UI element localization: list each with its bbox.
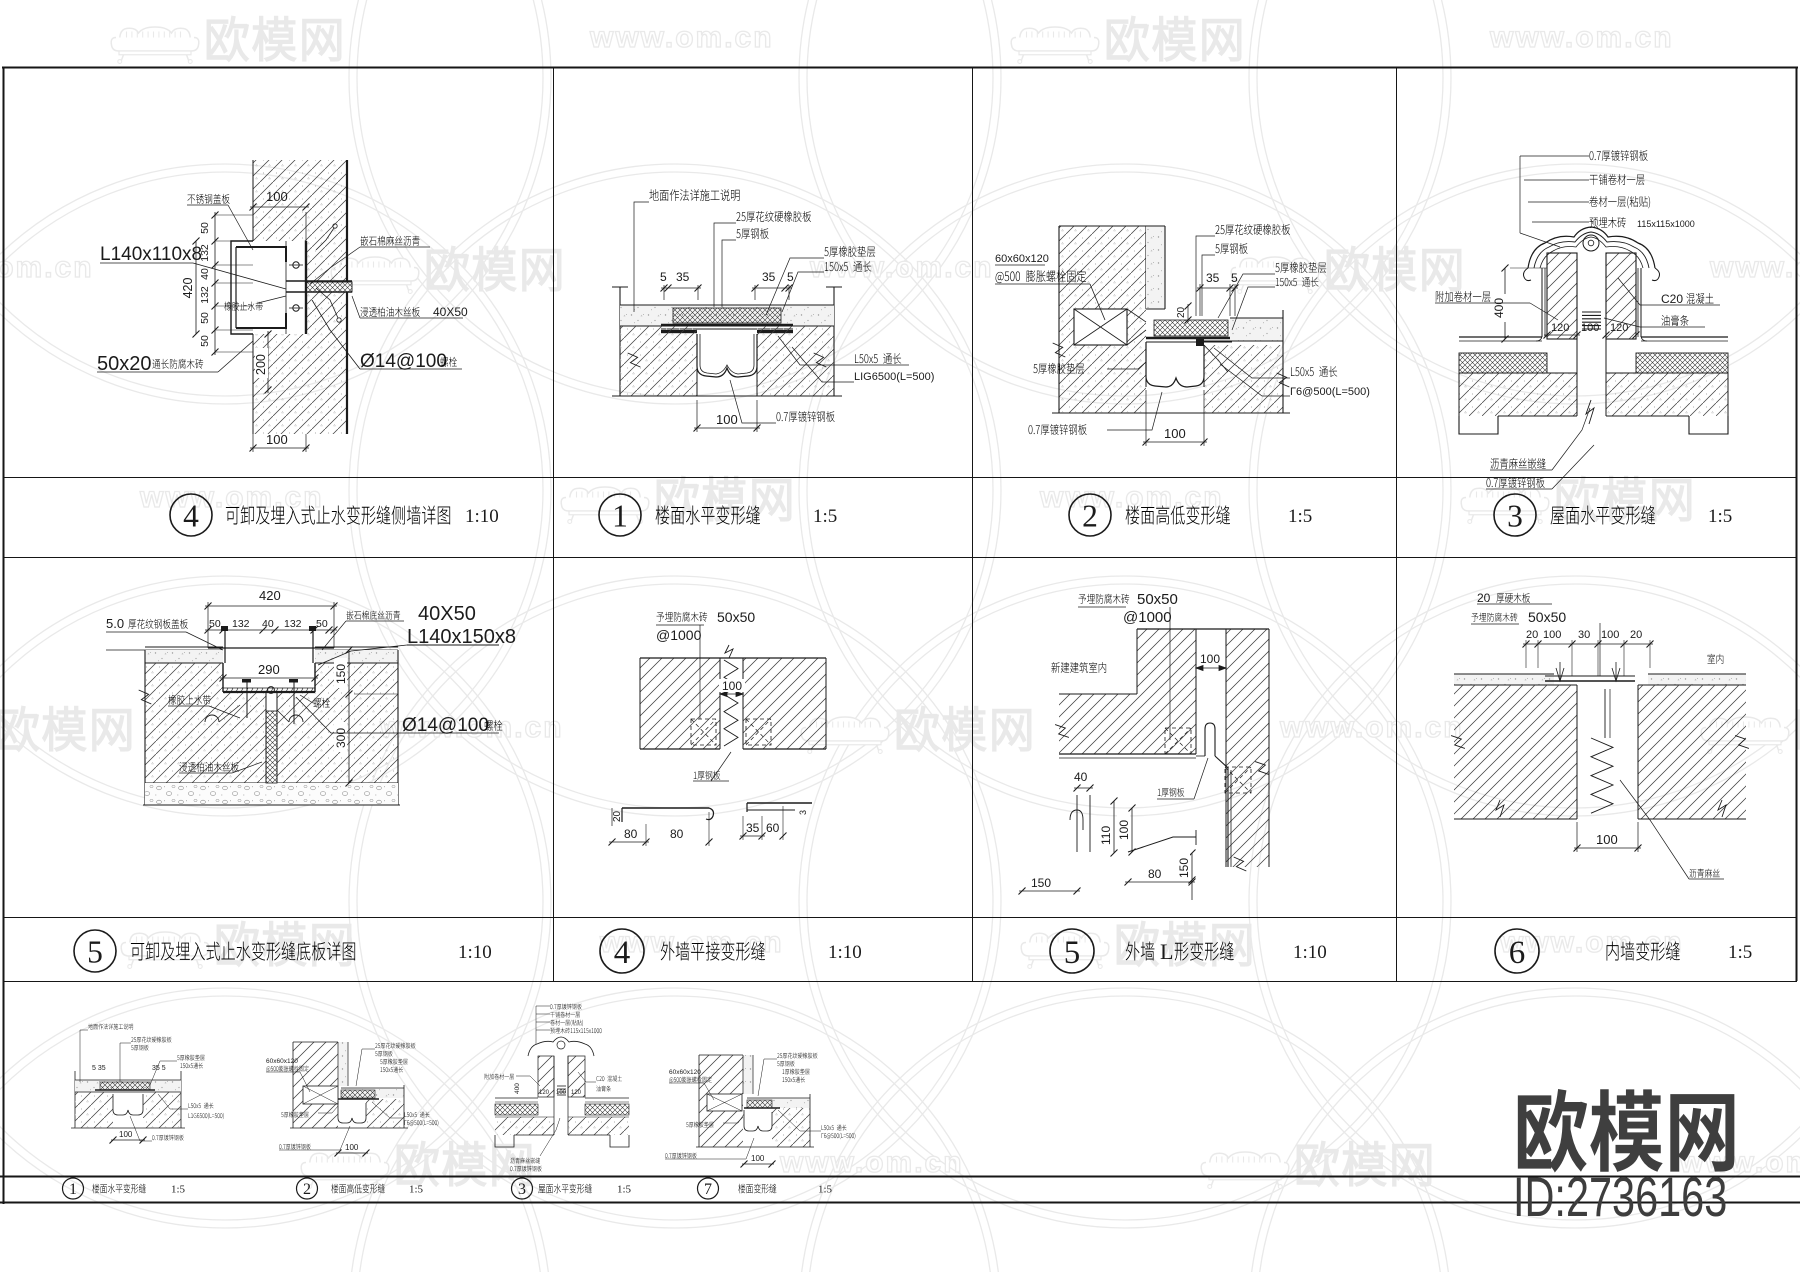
p6 slab hatch left [1454,685,1577,819]
svg-text:50x50: 50x50 [717,609,755,625]
watermark circle pair at 675,78 [357,0,993,396]
svg-text:132: 132 [232,618,250,630]
panel 4 label wood fiber board 40X50 [360,307,420,317]
m4 sealant zigzag [724,660,738,746]
panel 2 slab bottom [1052,412,1290,414]
svg-text:5: 5 [87,934,103,969]
panel 3 label sealant strip [1661,315,1688,326]
panel 4 wall hatch right wythe upper [306,241,347,281]
panel 3 top labels [1589,150,1647,161]
svg-text:420: 420 [259,588,281,603]
svg-text:C20: C20 [1661,292,1683,306]
svg-text:132: 132 [284,618,302,630]
svg-text:100: 100 [1117,820,1131,840]
watermark circle pair at 225,490 [0,172,543,808]
svg-text:www.om.cn: www.om.cn [779,1146,964,1179]
svg-text:120: 120 [539,1090,550,1096]
panel 2 rubber plate assembly [1154,320,1228,336]
svg-text:7: 7 [704,1181,712,1198]
m5b outer wall hatch [1226,629,1269,867]
svg-text:35: 35 [746,821,760,835]
p6 slab hatch right [1638,685,1746,819]
m5b dim 80 [1125,881,1195,883]
svg-text:50x50: 50x50 [1528,609,1566,625]
svg-text:5 35: 5 35 [92,1065,106,1072]
panel 2 label L50x5 right [1291,366,1337,377]
panel 1 label galvanized sheet [776,411,834,422]
panel 2 label 5 steel plate [1215,243,1247,254]
svg-text:40X50: 40X50 [433,305,468,319]
mini 2: stepped floor joint small copy [293,1042,338,1128]
svg-text:400: 400 [514,1083,521,1094]
svg-text:1: 1 [69,1181,77,1198]
panel 1 galvanized channel [697,334,757,377]
panel 5 dim 300 [348,694,350,783]
svg-text:20: 20 [1630,629,1642,641]
panel 1 dim 5 35 left [663,285,665,300]
m5b label embedded wood brick [1078,594,1129,604]
panel 3 roof membrane lines [1459,336,1542,338]
svg-text:40X50: 40X50 [418,603,476,625]
watermark circle pair at 1575,78 [1257,0,1800,396]
svg-text:6: 6 [1509,935,1526,971]
title circle 4 [170,494,212,536]
panel 2 label galvanized sheet [1028,424,1086,435]
svg-text:100: 100 [1581,322,1599,334]
watermark circle pair at 1575,490 [1257,172,1800,808]
panel 1 dim 100 bottom [696,400,698,432]
svg-text:1:5: 1:5 [1708,506,1732,527]
title circle 1 [599,494,641,536]
svg-text:50x50: 50x50 [1137,591,1178,608]
watermark sofa logo at 1010,35 [1011,27,1099,63]
panel 2 label 150x5 [1276,277,1319,287]
m5b wood brick dashed inner [1165,728,1191,754]
panel 3 dims 120 100 120 [1544,334,1580,336]
svg-text:ID:2736163: ID:2736163 [1513,1166,1727,1229]
mini title 7 [698,1178,719,1199]
panel 4 cover plate channel [231,241,253,334]
p6 finish stipple left [1454,674,1554,685]
title circle 5 [1050,929,1094,973]
svg-text:www.om.cn: www.om.cn [0,251,94,284]
svg-text:1:10: 1:10 [465,506,499,527]
p6 dim 100 bottom [1576,822,1578,852]
m4 wall outlines [640,657,826,659]
watermark sofa logo at 120,940 [121,932,209,968]
svg-text:5: 5 [787,270,794,284]
panel 1 rubber plate crosshatch [673,308,781,323]
watermark circle pair at 1125,490 [807,172,1443,808]
svg-text:1: 1 [612,498,628,533]
panel 5 box outline [144,650,146,805]
panel 1 slab hatch left [620,326,697,396]
panel 4 label stainless cover plate [187,194,229,204]
svg-text:40: 40 [199,268,211,280]
m5b dims 110 100 [1113,801,1115,853]
panel 1 slab hatch right [757,326,834,396]
svg-text:115x115x1000: 115x115x1000 [1637,219,1695,229]
p6 label interior [1708,654,1724,664]
panel 2 dim 35 5 [1199,284,1201,316]
svg-text:40: 40 [1074,770,1088,784]
panel 2 label rubber pad left [1033,363,1084,374]
m4 top break mark [725,645,733,658]
svg-text:50: 50 [199,222,211,234]
svg-text:1:10: 1:10 [828,942,862,963]
svg-text:300: 300 [334,728,348,748]
panel 3 cap curls [1524,268,1532,281]
svg-text:www.om.cn: www.om.cn [1709,251,1800,284]
panel 1 label 25 thick rubber plate [736,211,811,222]
panel 2 angle fixings [1196,338,1204,346]
svg-text:5: 5 [1064,935,1081,971]
watermark sofa logo at 1230,265 [1231,257,1319,293]
panel 4 wall hatch right wythe lower [306,292,347,334]
m5b break marks [1055,722,1069,740]
m4 profile sketch right [747,802,812,804]
svg-text:Γ6@500(L=500): Γ6@500(L=500) [1290,386,1370,398]
panel 3 metal capping crown [1528,227,1655,268]
m5b leader vertical from label [1169,607,1171,740]
panel 5 chain dims [205,629,337,631]
p6 label embedded brick [1471,613,1517,622]
svg-text:35: 35 [762,270,776,284]
panel 4 dim 200 [267,331,269,393]
svg-text:100: 100 [716,412,738,427]
svg-text:50: 50 [316,618,328,630]
title text 屋面水平变形缝 [1551,505,1655,524]
mini title 2 [297,1178,318,1199]
watermark sofa logo at 110,35 [111,27,199,63]
m5b joint dim 100 [1195,629,1197,660]
panel 3 insulation crosshatch left [1459,353,1547,373]
svg-text:100: 100 [556,1090,567,1096]
svg-text:120: 120 [1551,322,1569,334]
svg-text:132: 132 [199,286,211,304]
watermark circle pair at 1575,1314 [1257,996,1800,1272]
svg-text:1:10: 1:10 [1293,942,1327,963]
watermark sofa logo at 330,265 [331,257,419,293]
svg-text:35: 35 [676,270,690,284]
m4 label embedded wood brick [656,612,707,622]
p6 label asphalt fiber [1689,869,1719,878]
svg-text:100: 100 [1164,426,1186,441]
m5b sloped plate [1128,837,1196,852]
panel 4 joint bolts [293,262,299,268]
svg-text:1:5: 1:5 [1288,506,1312,527]
svg-text:www.om.cn: www.om.cn [139,481,324,514]
m5b steel plate hook [1205,723,1215,756]
panel 4 left dimension chain [215,214,253,216]
panel 1 slab bottom line [612,395,842,397]
panel 5 waterstop curls [205,715,219,722]
p6 break waves [1496,800,1504,817]
panel 3 label additional membrane [1436,291,1491,302]
panel 5 break marks [139,688,152,705]
panel 4 embedded waterstop steel [305,241,307,334]
m5b inner wall hatch [1137,629,1196,754]
title text 可卸及埋入式止水变形缝侧墙详图 [226,505,450,524]
watermark circle pair at 1575,902 [1257,584,1800,1220]
panel 5 gravel band [145,783,398,805]
svg-text:2: 2 [1082,498,1098,533]
p6 top dims 20 100 30 100 20 [1525,640,1527,668]
mini 7: floor joint small copy [699,1055,743,1147]
mini 3 labels [550,1004,581,1010]
panel 3 bottom labels [1490,458,1545,469]
svg-text:80: 80 [670,827,684,841]
watermark circle pair at 1125,78 [807,0,1443,396]
watermark circle pair at 1125,1314 [807,996,1443,1272]
panel 1 steel plate under rubber [661,324,793,327]
mini title 3 [512,1178,533,1199]
watermark sofa logo at 300,1160 [301,1152,389,1188]
panel 5 joint gap below pan [265,692,267,783]
watermark circle pair at 225,1314 [0,996,543,1272]
svg-text:3: 3 [798,810,808,815]
svg-text:420: 420 [181,278,195,299]
panel 1 label rubber pad [824,246,875,257]
panel 4 horizontal joint at right [286,280,352,282]
title text 外墙 [1126,941,1155,960]
panel 1 side walls [619,287,621,396]
title text 楼面水平变形缝 [656,505,760,524]
panel 1 dim 35 5 right [754,285,756,300]
panel 5 label asbestos caulk [346,611,400,620]
panel 2 right slab hatch [1204,345,1283,413]
svg-text:20: 20 [1526,629,1538,641]
svg-text:60x60x120: 60x60x120 [995,253,1049,265]
svg-text:@1000: @1000 [656,627,702,643]
svg-text:3: 3 [518,1181,526,1198]
svg-text:100: 100 [1601,629,1619,641]
svg-text:400: 400 [1492,298,1506,318]
panel 2 label rubber pad right [1275,262,1326,273]
svg-text:80: 80 [1148,867,1162,881]
title circle 6 [1495,929,1539,973]
m4 wood brick dashed left [691,719,716,745]
title text 可卸及埋入式止水变形缝底板详图 [131,941,355,960]
p6 joint sealant zigzag [1604,689,1606,738]
watermark circle pair at 675,1314 [357,996,993,1272]
svg-text:www.om.cn: www.om.cn [589,21,774,54]
panel 5 label bolt mid [313,698,329,708]
panel 1 label 5 thick steel plate [736,228,768,239]
svg-text:150: 150 [1031,876,1051,890]
panel 5 dim 150 [348,650,350,694]
panel 4 wall hatch upper [253,160,347,241]
svg-text:1:5: 1:5 [818,1184,833,1196]
m5b dim 150 left [1019,890,1080,892]
panel 1 break marks [628,351,641,368]
watermark circle pair at 675,490 [357,172,993,808]
p6 vertical leader dashed [1599,623,1601,676]
svg-text:200: 200 [254,354,268,375]
svg-text:35 5: 35 5 [152,1065,166,1072]
title circle 4 [600,929,644,973]
svg-text:L: L [1160,939,1173,964]
mini 1: floor joint small copy [74,1071,76,1128]
panel 2 dim 100 bottom [1145,390,1147,446]
m5b dim 150 right [1191,853,1193,900]
svg-text:150: 150 [1177,858,1191,878]
panel 5 finish lines [145,646,223,648]
mini 3: roof joint small copy [538,1056,554,1097]
panel 3 roof slab hatch [1459,373,1577,416]
svg-text:5: 5 [1231,271,1238,285]
panel 4 top dim 100 [252,166,254,212]
svg-text:120: 120 [1610,322,1628,334]
svg-text:100: 100 [345,1143,359,1152]
watermark sofa logo at 1200,1160 [1201,1152,1289,1188]
panel 1 label floor construction note [649,189,739,201]
svg-text:4: 4 [614,935,631,971]
panel 5 slab hatch right block [315,663,398,692]
mini title 1 [63,1178,84,1199]
m5b wood brick dashed outer [1225,767,1251,793]
panel 1 finish screed stipple band [620,305,834,326]
m4 label 1mm steel plate [694,771,721,780]
title text 外墙平接变形缝 [661,941,765,960]
svg-text:100: 100 [1200,652,1220,666]
svg-text:100: 100 [119,1130,133,1139]
svg-text:100: 100 [751,1154,765,1163]
m5b interior floor hatch [1059,694,1137,754]
svg-text:www.om.cn: www.om.cn [1039,481,1224,514]
svg-text:50: 50 [209,618,221,630]
svg-text:L140x110x8: L140x110x8 [100,244,202,265]
panel 5 slab hatch mid-right [277,692,398,783]
watermark circle pair at 675,902 [357,584,993,1220]
svg-text:20: 20 [1477,591,1491,605]
m4 wall hatch right [743,658,826,749]
panel 3 insulation crosshatch right [1636,353,1728,373]
p6 cover plate mid [1545,675,1635,677]
title circle 2 [1069,494,1111,536]
svg-text:120: 120 [571,1090,582,1096]
svg-text:30: 30 [1578,629,1590,641]
title text 楼面高低变形缝 [1126,505,1230,524]
svg-text:1:5: 1:5 [171,1184,186,1196]
m5b label 1mm steel [1158,788,1185,797]
panel 3 curb posts hatch [1547,253,1577,339]
svg-text:100: 100 [722,679,742,693]
panel 5 steel pan [222,663,224,692]
svg-text:1:5: 1:5 [409,1184,424,1196]
p6 finish stipple right [1648,674,1746,685]
panel 1 steel angles [661,330,697,333]
panel 4 label asbestos bitumen [360,236,419,246]
panel 3 sealant stack in joint [1582,311,1601,313]
watermark sofa logo at 800,725 [801,717,889,753]
svg-text:35: 35 [1206,271,1220,285]
svg-text:50: 50 [199,335,211,347]
svg-text:1:5: 1:5 [813,506,837,527]
m5b omega waterstop [1076,795,1078,852]
panel 2 wall hatch [1059,226,1146,413]
panel 5 pan serration [226,688,228,692]
svg-text:www.om.cn: www.om.cn [1279,711,1464,744]
panel 4 wall hatch lower [253,334,347,434]
m5b wall outlines [1137,628,1269,630]
panel 4 bottom dim 100 [252,434,254,452]
mini 1 labels [88,1024,133,1030]
panel 5 label rubber waterstop [168,695,210,705]
svg-text:100: 100 [1543,629,1561,641]
m4 dim 100 [719,658,721,700]
svg-text:1:5: 1:5 [1728,942,1752,963]
svg-text:290: 290 [258,662,280,677]
svg-text:4: 4 [183,498,199,533]
svg-text:150: 150 [334,664,348,684]
svg-text:5.0: 5.0 [106,616,124,631]
panel 5 stipple band [145,650,223,663]
panel 2 expansion bolt block [1074,309,1127,345]
panel 5 slab hatch left [145,663,223,783]
watermark circle pair at 225,78 [0,0,543,396]
panel 2 wall stipple strip [1146,226,1165,309]
svg-text:60x60x120: 60x60x120 [266,1058,298,1065]
svg-text:LIG6500(L=500): LIG6500(L=500) [854,371,934,383]
m5b dim 40 [1074,787,1093,789]
panel 5 pan bolts [246,681,248,718]
panel 3 dim 400 [1504,268,1506,339]
svg-text:2: 2 [303,1181,311,1198]
panel 5 label wood fiber board [179,762,239,772]
svg-text:www.om.cn: www.om.cn [809,251,994,284]
panel 2 right slab stipple [1230,318,1283,341]
svg-text:100: 100 [1596,832,1618,847]
m4 profile sketch left [622,807,709,809]
watermark sofa logo at 1460,495 [1461,487,1549,523]
svg-text:@1000: @1000 [1123,609,1172,626]
m4 wall hatch left [640,658,720,749]
svg-text:100: 100 [266,432,288,447]
svg-text:100: 100 [266,189,288,204]
svg-text:20: 20 [612,810,623,822]
svg-text:1:10: 1:10 [458,942,492,963]
svg-text:5: 5 [660,270,667,284]
svg-text:1:5: 1:5 [617,1184,632,1196]
panel 2 joint channel [1145,342,1147,387]
panel 4 anchor hook [316,288,338,318]
m5b label interior [1051,662,1106,673]
panel 2 break marks [1053,341,1066,358]
panel 1 label 150x5 strip [825,261,872,272]
watermark circle pair at 1125,902 [807,584,1443,1220]
site logo text dark [1518,1089,1735,1172]
svg-text:110: 110 [1099,826,1113,845]
watermark sofa logo at 1700,725 [1701,717,1789,753]
panel 5 cover plate and bolts top [208,647,334,649]
svg-text:3: 3 [1507,498,1523,533]
p6 slab outlines [1454,818,1577,820]
panel 3 flashing sides [1541,268,1543,337]
panel 3 joint break mark bottom [1586,400,1594,424]
watermark sofa logo at 560,495 [561,487,649,523]
m4 wood brick dashed right [746,719,771,745]
panel 1 joint edges [696,334,698,396]
panel 1 label L50x5 [855,353,901,364]
watermark circle pair at 225,902 [0,584,543,1220]
watermark sofa logo at 1020,940 [1021,932,1109,968]
svg-text:www.om.cn: www.om.cn [1489,21,1674,54]
panel 4 wall outlines [252,160,254,241]
panel 5 top dim 420 [207,602,209,648]
svg-text:60x60x120: 60x60x120 [669,1069,701,1076]
svg-text:40: 40 [262,618,274,630]
